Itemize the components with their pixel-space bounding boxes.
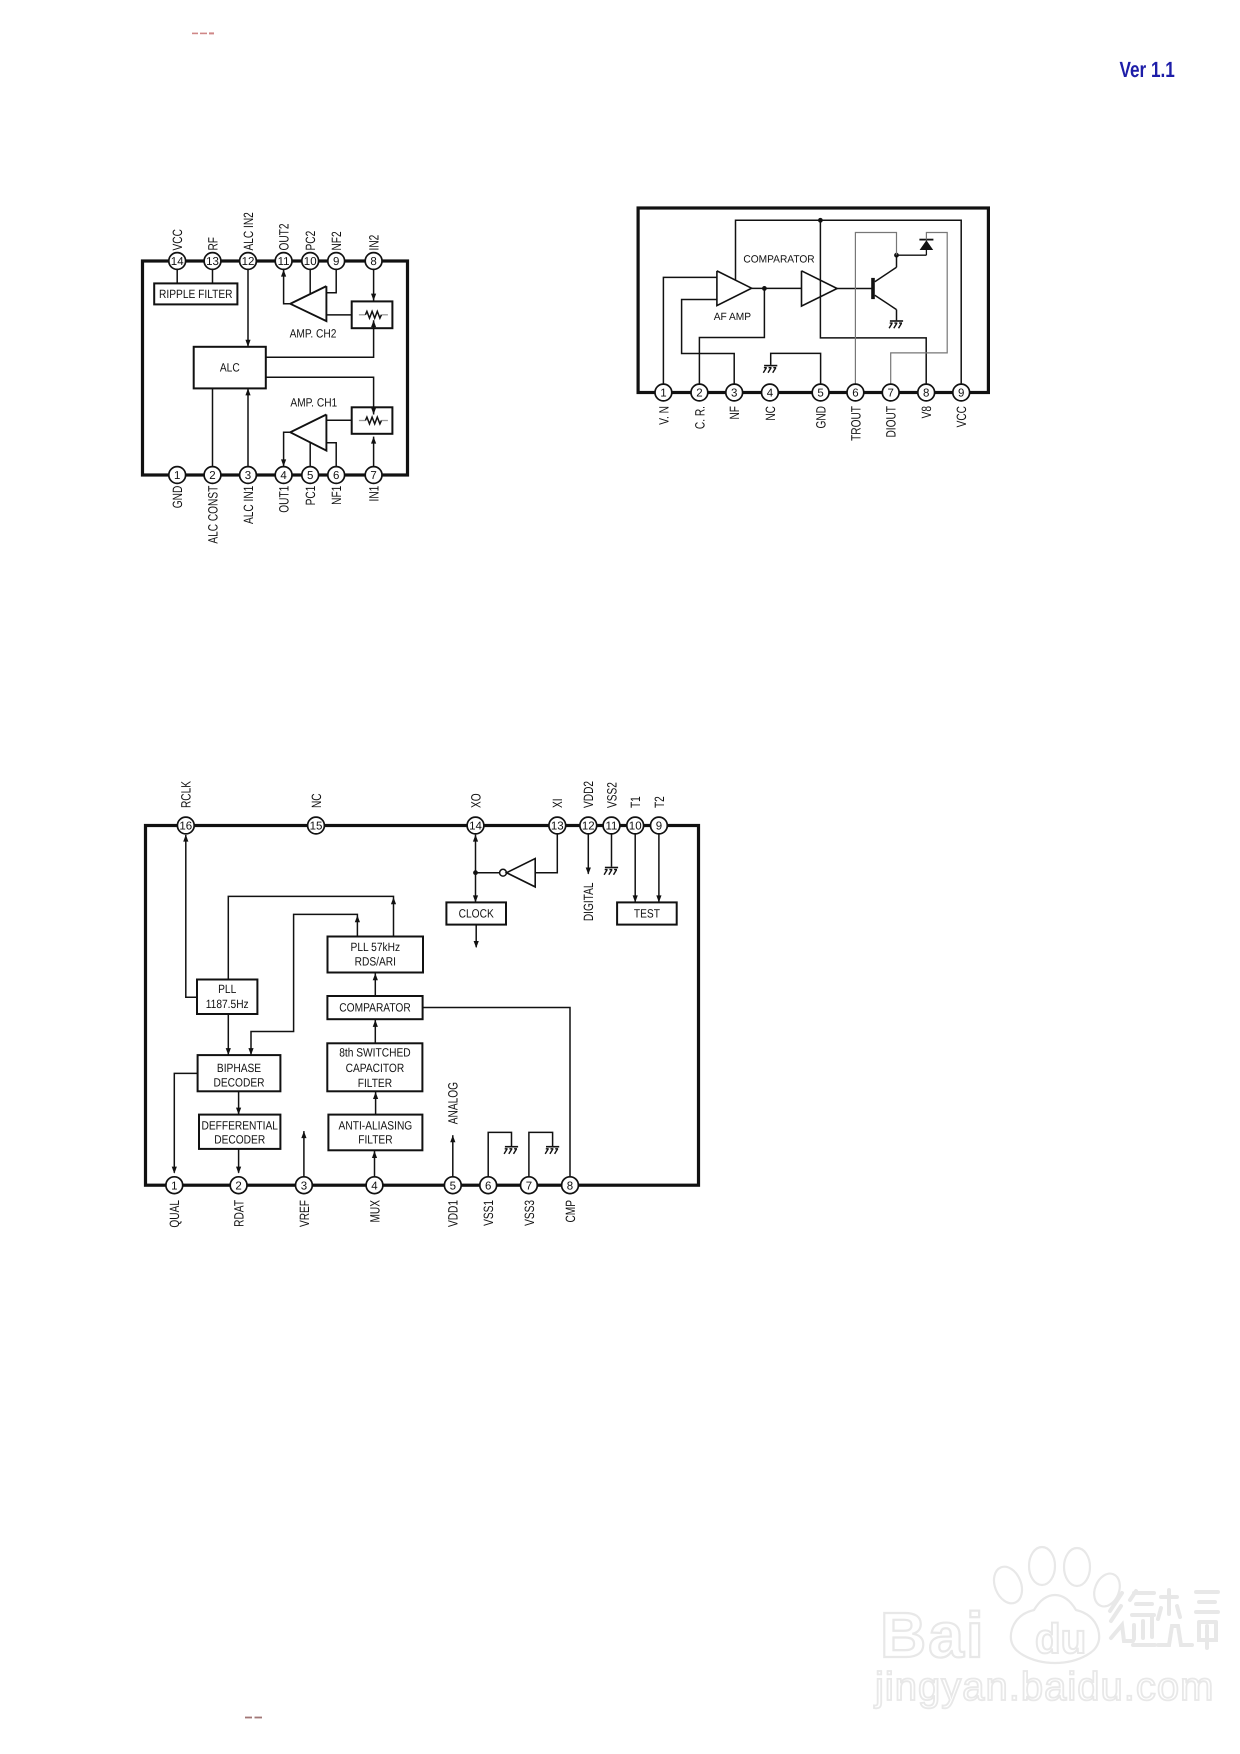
wire BIPHASE to pin1 QUAL	[174, 1073, 197, 1172]
arrowhead VDD2	[586, 868, 591, 875]
transistor Q1 (NPN)	[871, 255, 896, 320]
wire pin9 to amp ch2 right edge	[326, 269, 336, 293]
svg-text:VDD2: VDD2	[581, 781, 596, 808]
svg-text:T2: T2	[652, 796, 667, 808]
svg-text:4: 4	[767, 388, 774, 400]
pin 5 (PC1)	[302, 467, 319, 484]
wire pin4 MUX to ANTI-ALIASING	[374, 1150, 376, 1177]
pin 6 (TROUT)	[847, 384, 864, 401]
svg-text:NC: NC	[309, 793, 324, 808]
pin 9 (T2)	[651, 817, 668, 834]
svg-text:T1: T1	[628, 796, 643, 808]
wire amp ch2 output to pin 11	[284, 270, 291, 304]
svg-text:XI: XI	[550, 798, 565, 808]
pin 2 (ALC CONST)	[204, 467, 221, 484]
wire BIPHASE to DEFFERENTIAL	[238, 1091, 240, 1114]
svg-text:NF2: NF2	[329, 231, 344, 250]
junction node AF amp output	[762, 286, 767, 291]
svg-text:AMP. CH2: AMP. CH2	[290, 326, 337, 340]
pin 14 (VCC)	[169, 253, 186, 270]
svg-text:BIPHASE: BIPHASE	[217, 1061, 261, 1075]
svg-text:VCC: VCC	[954, 406, 969, 428]
wire PLL57 out to PLL1187 top	[228, 896, 393, 979]
svg-text:PC1: PC1	[303, 486, 318, 506]
wire collector junction to diode anode	[897, 254, 927, 256]
pin 4 (NC)	[762, 384, 779, 401]
pin 6 (VSS1)	[480, 1177, 497, 1194]
pin 8 (IN2)	[365, 253, 382, 270]
wire pin3 to ALC	[247, 388, 249, 466]
svg-text:PC2: PC2	[303, 231, 318, 251]
arrowhead VDD1 up	[450, 1135, 455, 1142]
wire pin2 to AF amp output	[699, 288, 764, 384]
svg-text:IN1: IN1	[367, 486, 382, 502]
pin 1 (V. N)	[655, 384, 672, 401]
wire CLOCK output dangling	[475, 925, 477, 948]
arrowhead into resistor ch2 top	[371, 294, 376, 301]
wire pin3 VREF dangling	[303, 1131, 305, 1177]
comparator triangle	[802, 271, 838, 306]
pin 9 (VCC)	[953, 384, 970, 401]
wire collector to pin6 TROUT	[855, 233, 896, 385]
resistor symbol ch2	[359, 311, 388, 318]
svg-text:2: 2	[696, 388, 702, 400]
arrowhead into BIPHASE top right	[248, 1048, 253, 1055]
block COMPARATOR (diagram 3)	[327, 996, 422, 1019]
arrowhead dangling below CLOCK	[474, 941, 479, 948]
svg-text:C. R.: C. R.	[692, 406, 707, 429]
inverter U2 (clock oscillator)	[500, 859, 536, 887]
arrowhead into resistor ch2 bottom	[371, 320, 376, 327]
svg-text:FILTER: FILTER	[358, 1076, 393, 1090]
wire COMPARATOR to PLL57	[374, 973, 376, 997]
block ALC	[194, 347, 266, 389]
wire pin10 to amp ch2 slant	[309, 269, 311, 294]
svg-text:XO: XO	[468, 793, 483, 808]
svg-text:12: 12	[582, 821, 595, 833]
pin 13 (RF)	[204, 253, 221, 270]
pin 8 (V8)	[918, 384, 935, 401]
IC outline box (diagram 3)	[146, 826, 699, 1186]
wire pin1 to AF amp + input	[663, 277, 717, 384]
pin 11 (OUT2)	[275, 253, 292, 270]
svg-text:GND: GND	[170, 486, 185, 509]
svg-text:IN2: IN2	[367, 235, 382, 251]
arrowhead into COMPARATOR bottom	[373, 1020, 378, 1027]
faint annotation bottom-left	[245, 1717, 262, 1719]
svg-text:7: 7	[526, 1180, 532, 1192]
wire junction to inverter bubble	[476, 872, 500, 874]
svg-text:11: 11	[606, 821, 618, 833]
svg-text:DECODER: DECODER	[214, 1133, 265, 1147]
block BIPHASE DECODER	[198, 1055, 281, 1091]
resistor box ch2	[352, 301, 393, 328]
op-amp AMP CH1 triangle	[290, 415, 326, 451]
svg-text:13: 13	[551, 821, 564, 833]
pin 5 (VDD1)	[444, 1177, 461, 1194]
wire ALC to pin2	[212, 388, 214, 466]
svg-text:ANALOG: ANALOG	[446, 1082, 461, 1124]
svg-text:6: 6	[852, 388, 858, 400]
IC outline box (diagram 2)	[638, 208, 988, 393]
pin 4 (OUT1)	[275, 467, 292, 484]
svg-text:9: 9	[656, 821, 662, 833]
ground symbol VSS3	[545, 1147, 559, 1154]
svg-text:NF1: NF1	[329, 486, 344, 505]
pin 7 (IN1)	[365, 467, 382, 484]
arrowhead into DEFFERENTIAL top	[236, 1108, 241, 1115]
pin 7 (VSS3)	[521, 1177, 538, 1194]
op-amp AMP CH2 triangle	[290, 286, 326, 321]
pin 12 (ALC IN2)	[240, 253, 257, 270]
svg-text:VREF: VREF	[297, 1200, 312, 1227]
pin 10 (PC2)	[302, 253, 319, 270]
arrowhead into resistor ch1 bottom	[371, 437, 376, 444]
arrowhead into CLOCK top	[473, 895, 478, 902]
svg-text:CAPACITOR: CAPACITOR	[346, 1061, 405, 1075]
svg-text:V8: V8	[919, 406, 934, 418]
svg-text:Ver 1.1: Ver 1.1	[1120, 57, 1175, 82]
svg-text:4: 4	[371, 1180, 378, 1192]
wire AF amp output to comparator	[752, 287, 802, 289]
svg-text:PLL: PLL	[218, 982, 236, 996]
block ANTI-ALIASING FILTER	[328, 1115, 422, 1151]
svg-text:Bai: Bai	[880, 1599, 986, 1671]
svg-text:OUT2: OUT2	[277, 223, 292, 250]
svg-text:AF AMP: AF AMP	[714, 311, 751, 323]
pin 12 (VDD2)	[580, 817, 597, 834]
svg-text:DEFFERENTIAL: DEFFERENTIAL	[201, 1119, 278, 1133]
block 8th SWITCHED CAPACITOR FILTER	[327, 1043, 422, 1091]
svg-text:RDAT: RDAT	[232, 1200, 247, 1227]
wire pin8 down to resistor ch2	[373, 269, 375, 301]
block PLL 57kHz RDS/ARI	[328, 937, 424, 973]
svg-text:1: 1	[174, 470, 180, 482]
wire amp ch1 output to pin 4	[284, 432, 291, 466]
svg-text:6: 6	[333, 470, 339, 482]
pin 9 (NF2)	[328, 253, 345, 270]
wire pin12 VDD2 down	[587, 834, 589, 874]
pin 3 (NF)	[726, 384, 743, 401]
svg-text:ANTI-ALIASING: ANTI-ALIASING	[339, 1119, 413, 1133]
arrowhead VREF up	[301, 1131, 306, 1138]
svg-text:RDS/ARI: RDS/ARI	[355, 954, 396, 968]
svg-text:16: 16	[179, 821, 192, 833]
svg-text:9: 9	[333, 256, 339, 268]
op-amp AF AMP triangle	[717, 271, 752, 306]
wire comparator output to transistor base	[837, 288, 872, 290]
block RIPPLE FILTER	[154, 283, 237, 304]
svg-text:3: 3	[245, 470, 251, 482]
svg-text:5: 5	[817, 388, 823, 400]
svg-text:1: 1	[660, 388, 666, 400]
svg-text:12: 12	[242, 256, 255, 268]
pin 2 (RDAT)	[230, 1177, 247, 1194]
svg-text:ALC IN2: ALC IN2	[241, 212, 256, 250]
pin 2 (C. R.)	[691, 384, 708, 401]
svg-text:TEST: TEST	[634, 907, 661, 921]
wire pin14 to ripple filter	[176, 269, 178, 283]
wire pin13 to ripple filter	[212, 269, 214, 283]
wire 8th filter to COMPARATOR	[374, 1019, 376, 1043]
svg-text:OUT1: OUT1	[277, 486, 292, 513]
svg-text:14: 14	[469, 821, 482, 833]
wire amp ch1 to resistor ch1	[326, 419, 351, 421]
arrowhead T1 into TEST	[633, 895, 638, 902]
svg-text:VSS3: VSS3	[522, 1200, 537, 1226]
arrowhead into ANTI-ALIASING bottom	[372, 1151, 377, 1158]
junction node XO	[473, 870, 478, 875]
svg-text:3: 3	[731, 388, 737, 400]
svg-text:10: 10	[629, 821, 642, 833]
svg-text:RIPPLE FILTER: RIPPLE FILTER	[159, 287, 233, 301]
svg-text:1: 1	[171, 1180, 177, 1192]
svg-text:DIOUT: DIOUT	[884, 406, 899, 438]
svg-text:jingyan.baidu.com: jingyan.baidu.com	[874, 1665, 1214, 1709]
block PLL 1187.5Hz	[197, 980, 257, 1015]
wire PLL1187 to BIPHASE	[227, 1014, 229, 1055]
watermark Baidu Jingyan (faint)	[874, 1547, 1218, 1709]
svg-text:13: 13	[206, 256, 219, 268]
svg-text:V. N: V. N	[656, 406, 671, 425]
arrowhead into resistor ch1 top	[371, 408, 376, 415]
ground symbol VSS1	[504, 1147, 518, 1154]
svg-text:2: 2	[209, 470, 215, 482]
pin 11 (VSS2)	[603, 817, 620, 834]
arrowhead at pin1	[172, 1167, 177, 1174]
arrowhead at pin2	[236, 1167, 241, 1174]
svg-text:MUX: MUX	[367, 1200, 382, 1223]
wire pin3 to AF amp - input	[682, 300, 735, 385]
wire pin6 VSS1 to ground	[488, 1132, 511, 1176]
svg-text:VCC: VCC	[170, 229, 185, 251]
svg-text:6: 6	[485, 1180, 491, 1192]
wire pin13 XI to inverter input	[535, 834, 557, 873]
svg-text:PLL 57kHz: PLL 57kHz	[351, 940, 401, 954]
svg-text:15: 15	[310, 821, 323, 833]
svg-text:4: 4	[280, 470, 287, 482]
wire pin5 GND to chassis ground	[771, 353, 821, 384]
svg-text:DIGITAL: DIGITAL	[581, 882, 596, 921]
wire PLL1187 to pin16 RCLK	[186, 835, 197, 997]
resistor symbol ch1	[359, 417, 388, 424]
wire pin12 down to ALC	[247, 269, 249, 347]
ground symbol near pin4	[763, 366, 777, 373]
wire pin5 to amp ch1 slant	[309, 443, 311, 467]
wire top rail down to pin8 V8	[820, 220, 926, 384]
wire pin5 VDD1 dangling	[452, 1135, 454, 1177]
svg-text:NF: NF	[727, 406, 742, 420]
ground symbol at emitter	[889, 321, 903, 328]
svg-text:2: 2	[235, 1180, 241, 1192]
pin 1 (QUAL)	[166, 1177, 183, 1194]
pin 1 (GND)	[169, 467, 186, 484]
pin 3 (VREF)	[296, 1177, 313, 1194]
diode D1	[919, 240, 933, 256]
arrowhead up at pin16	[183, 835, 188, 842]
svg-text:RCLK: RCLK	[179, 781, 194, 808]
svg-text:VSS1: VSS1	[481, 1200, 496, 1226]
svg-text:NC: NC	[763, 406, 778, 421]
pin 13 (XI)	[549, 817, 566, 834]
arrowhead T2 into TEST	[656, 895, 661, 902]
wire pin7 to resistor ch1	[373, 437, 375, 467]
wire PLL57 out to BIPHASE top	[251, 914, 357, 1055]
arrowhead up into rail 2 from PLL57	[355, 915, 360, 922]
arrowhead into ALC top	[245, 340, 250, 347]
svg-text:ALC IN1: ALC IN1	[241, 486, 256, 524]
svg-text:CMP: CMP	[563, 1200, 578, 1223]
faint red annotation top-left	[192, 32, 214, 34]
junction node top rail	[818, 218, 823, 223]
svg-text:CLOCK: CLOCK	[459, 907, 494, 921]
svg-text:9: 9	[958, 388, 964, 400]
wire pin14 XO trunk	[475, 835, 477, 903]
pin 8 (CMP)	[562, 1177, 579, 1194]
arrowhead into 8th filter bottom	[373, 1092, 378, 1099]
pin 3 (ALC IN1)	[240, 467, 257, 484]
block DEFFERENTIAL DECODER	[199, 1115, 280, 1149]
svg-text:5: 5	[307, 470, 313, 482]
svg-text:1187.5Hz: 1187.5Hz	[206, 997, 249, 1011]
pin 10 (T1)	[627, 817, 644, 834]
wire DEFFERENTIAL to pin2 RDAT	[238, 1149, 240, 1173]
svg-text:10: 10	[304, 256, 317, 268]
svg-text:COMPARATOR: COMPARATOR	[743, 254, 815, 266]
svg-text:3: 3	[301, 1180, 307, 1192]
arrowhead up into rail from PLL57	[391, 897, 396, 904]
block CLOCK	[446, 902, 506, 924]
pin 7 (DIOUT)	[882, 384, 899, 401]
svg-text:du: du	[1035, 1615, 1086, 1662]
arrowhead down at pin 4	[281, 459, 286, 466]
svg-text:VDD1: VDD1	[446, 1200, 461, 1227]
svg-text:11: 11	[278, 256, 290, 268]
svg-text:AMP. CH1: AMP. CH1	[290, 395, 337, 409]
svg-text:8: 8	[567, 1180, 573, 1192]
pin 14 (XO)	[467, 817, 484, 834]
svg-text:7: 7	[887, 388, 893, 400]
wire COMPARATOR out to pin8 CMP	[423, 1008, 570, 1177]
arrowhead up at pin 11	[281, 270, 286, 277]
wire ALC to resistor ch1 top	[266, 377, 374, 414]
svg-text:5: 5	[450, 1180, 456, 1192]
wire feedback top rail to pin9 VCC	[736, 220, 962, 384]
wire pin6 to amp ch1 right edge	[326, 443, 336, 467]
wire ALC to resistor ch2 bottom	[266, 320, 374, 357]
wire pin11 VSS2 down	[611, 834, 613, 867]
wire diode cathode to pin7 DIOUT	[891, 233, 948, 385]
svg-text:GND: GND	[814, 406, 829, 429]
svg-text:8: 8	[370, 256, 376, 268]
pin 4 (MUX)	[366, 1177, 383, 1194]
arrowhead into PLL57 bottom	[373, 973, 378, 980]
ground symbol VSS2	[604, 868, 618, 875]
pin 15 (NC)	[308, 817, 325, 834]
svg-text:VSS2: VSS2	[604, 782, 619, 808]
svg-text:QUAL: QUAL	[167, 1200, 182, 1228]
wire pin10 T1 to TEST	[634, 834, 636, 902]
block TEST	[617, 902, 677, 924]
IC outline box (diagram 1)	[143, 261, 408, 475]
svg-text:COMPARATOR: COMPARATOR	[339, 1001, 411, 1015]
svg-text:ALC CONST: ALC CONST	[205, 486, 220, 544]
wire pin7 VSS3 to ground	[529, 1132, 553, 1176]
resistor box ch1	[352, 407, 393, 434]
wire pin9 T2 to TEST	[658, 834, 660, 902]
svg-text:RF: RF	[205, 237, 220, 251]
svg-text:TROUT: TROUT	[848, 406, 863, 441]
svg-text:ALC: ALC	[220, 361, 240, 375]
arrowhead into BIPHASE top left	[226, 1048, 231, 1055]
junction node collector	[894, 253, 899, 258]
arrowhead up at pin14	[473, 835, 478, 842]
svg-text:DECODER: DECODER	[213, 1075, 264, 1089]
wire ANTI-ALIASING to 8th filter	[375, 1091, 377, 1114]
svg-text:8th SWITCHED: 8th SWITCHED	[339, 1046, 411, 1060]
wire amp ch2 to resistor ch2	[326, 314, 351, 316]
svg-text:7: 7	[370, 470, 376, 482]
pin 6 (NF1)	[328, 467, 345, 484]
pin 16 (RCLK)	[177, 817, 194, 834]
svg-text:14: 14	[171, 256, 184, 268]
arrowhead into ALC bottom	[245, 388, 250, 395]
svg-text:8: 8	[923, 388, 929, 400]
svg-text:FILTER: FILTER	[358, 1133, 393, 1147]
pin 5 (GND)	[812, 384, 829, 401]
